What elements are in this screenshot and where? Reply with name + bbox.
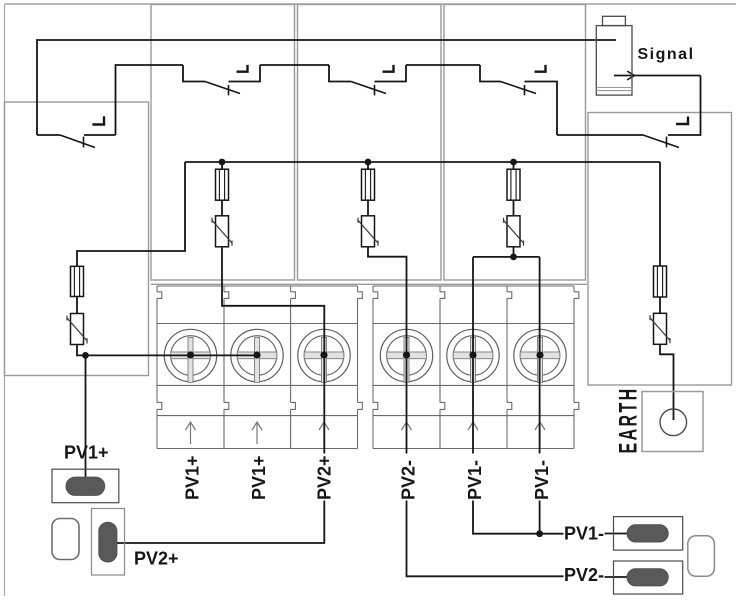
switch S1 left lead — [37, 134, 60, 136]
wire F3 to RV3 — [367, 200, 369, 216]
wire: S3 to S4 — [406, 64, 480, 66]
node PV1+ junction — [82, 352, 89, 359]
node terminal T2 — [253, 351, 260, 358]
wire tee crossbar — [473, 256, 540, 258]
switch S3 right lead — [375, 65, 407, 82]
wire RV2 to terminal T3 — [222, 247, 324, 454]
module box 2 — [298, 5, 442, 281]
wire bus to F2 — [221, 162, 223, 169]
switch S3 contact tick — [374, 85, 376, 95]
wire: bus to PV1+ branch — [77, 162, 185, 266]
wire F2 to RV2 — [221, 200, 223, 216]
terminal T2 clamp — [231, 329, 283, 382]
terminal T1 clamp — [164, 329, 216, 382]
svg-text:PV2-: PV2- — [564, 565, 604, 585]
terminal T5 clamp — [447, 329, 499, 382]
switch S2 right lead — [229, 65, 261, 82]
PV1- connector body — [614, 517, 683, 551]
varistor RV3 (module 2) — [358, 216, 378, 247]
signal connector bottom lines — [596, 88, 632, 91]
wire T5 down to PV1- junction — [473, 501, 540, 534]
terminal T4 clamp — [380, 329, 432, 382]
switch S3 left lead — [329, 65, 351, 82]
terminal block A interlock bumps — [157, 292, 362, 410]
terminal T6 clamp — [514, 329, 566, 382]
terminal block B outline — [373, 286, 574, 449]
wire: S2 to S3 — [260, 64, 329, 66]
svg-text:PV2+: PV2+ — [315, 455, 335, 500]
wire bus to F3 — [367, 162, 369, 169]
switch S4 right lead — [525, 82, 558, 136]
switch S5 contact tick — [666, 137, 668, 148]
fuse F3 (module 2) — [362, 169, 375, 200]
wire F4 to RV4 — [513, 200, 515, 216]
svg-text:PV1-: PV1- — [532, 460, 552, 500]
switch S5 blade — [643, 135, 679, 148]
svg-text:PV1+: PV1+ — [183, 455, 203, 500]
earth terminal screw circle — [660, 409, 687, 436]
switch S2 contact tick — [228, 85, 230, 95]
fuse F4 (module 3) — [507, 169, 520, 200]
svg-text:PV1-: PV1- — [465, 460, 485, 500]
switch S3 thermal mark — [383, 65, 394, 72]
earth terminal box — [642, 392, 703, 452]
PV2- connector body — [614, 561, 683, 594]
node bus-module2 — [365, 159, 372, 166]
svg-text:PV2+: PV2+ — [134, 548, 179, 568]
node PV1- junction — [536, 530, 543, 537]
terminal T1 wire-entry arrow — [186, 422, 196, 444]
rounded spare opening (bottom left) — [52, 519, 79, 560]
terminal T5 wire-entry arrow — [468, 422, 478, 444]
wire: signal return run — [614, 75, 701, 77]
wire RV1 to terminals T1 T2 — [77, 345, 258, 356]
right compartment box — [588, 113, 732, 386]
varistor RV5 (earth branch) — [650, 313, 670, 344]
terminal T6 wire-entry arrow — [535, 422, 545, 444]
node terminal T5 — [469, 351, 476, 358]
wire: S1 to S2 — [116, 65, 184, 135]
PV2+ connector pill — [99, 522, 117, 562]
terminal T2 wire-entry arrow — [252, 422, 262, 444]
switch S4 left lead — [480, 65, 501, 82]
node terminal T6 — [536, 351, 543, 358]
wire tee to terminal T6 — [539, 257, 541, 454]
wire: common bus — [185, 161, 660, 163]
outer frame left border — [4, 4, 6, 596]
svg-text:EARTH: EARTH — [615, 386, 642, 453]
module box 3 — [444, 5, 586, 281]
wire RV3 to terminal T4 — [368, 247, 407, 454]
outer frame top border — [5, 3, 737, 5]
signal connector top tab — [603, 16, 626, 25]
wire: S4 to S5 — [557, 134, 643, 136]
switch S5 right lead — [668, 76, 701, 136]
svg-text:PV1+: PV1+ — [64, 443, 109, 463]
switch S1 blade — [60, 135, 95, 148]
wire: signal loop top run — [37, 40, 616, 135]
switch S4 thermal mark — [535, 65, 546, 72]
node terminal T4 — [403, 351, 410, 358]
switch S4 blade — [501, 82, 537, 94]
terminal block A outline — [157, 286, 358, 449]
node bus-module3 — [510, 159, 517, 166]
node bus-module1 — [219, 159, 226, 166]
PV2- connector pill — [627, 569, 668, 586]
svg-text:PV2-: PV2- — [399, 460, 419, 500]
PV1- connector pill — [627, 525, 668, 542]
terminal block B interlock bumps — [373, 292, 579, 410]
switch S1 contact tick — [83, 137, 85, 148]
switch S2 blade — [205, 82, 240, 94]
wire RV4 to T junction — [513, 247, 515, 257]
PV1+ connector pill — [66, 477, 105, 495]
terminal T3 clamp — [298, 329, 350, 382]
wire T4 to PV2- connector — [407, 501, 564, 577]
wire PV1- label to pill — [605, 533, 649, 535]
fuse F1 (PV1+ branch) — [71, 266, 84, 296]
switch S2 thermal mark — [237, 65, 248, 72]
svg-text:PV1-: PV1- — [564, 523, 604, 543]
signal wire arrowhead — [627, 71, 634, 80]
fuse F5 (earth branch) — [654, 266, 667, 297]
switch S1 thermal mark — [92, 116, 104, 124]
svg-text:PV1+: PV1+ — [249, 455, 269, 500]
node terminal T1 — [187, 351, 194, 358]
wire: bus to earth branch — [659, 162, 661, 266]
module box 1 — [151, 5, 295, 281]
svg-text:Signal: Signal — [638, 46, 695, 63]
wire junction to PV1- label — [540, 533, 564, 535]
signal connector body — [596, 26, 632, 96]
switch S4 contact tick — [524, 85, 526, 95]
switch S1 right lead — [84, 134, 116, 136]
wire T6 down to PV1- junction — [539, 501, 541, 534]
wire T3 to PV2+ connector — [108, 501, 324, 544]
wire F5 to RV5 — [659, 297, 661, 313]
switch S3 blade — [351, 82, 386, 94]
wire PV2- label to pill — [605, 576, 649, 578]
wire tee to terminal T5 — [472, 257, 474, 454]
terminal T4 wire-entry arrow — [402, 422, 412, 444]
switch S2 left lead — [183, 65, 205, 82]
switch S5 thermal mark — [676, 117, 688, 125]
wire: junction down to PV1+ connector — [85, 355, 87, 485]
wire bus to F4 — [513, 162, 515, 169]
wire F1 to RV1 — [76, 297, 78, 314]
varistor RV2 (module 1) — [212, 216, 232, 247]
left compartment box — [5, 102, 149, 376]
rounded spare opening (bottom right) — [688, 536, 715, 577]
varistor RV1 (PV1+ branch) — [67, 314, 87, 345]
mounting rail line — [151, 283, 587, 285]
wire RV5 to earth terminal — [660, 344, 674, 420]
node module3 tee — [510, 254, 517, 261]
varistor RV4 (module 3) — [504, 216, 524, 247]
PV2+ connector body — [92, 509, 125, 576]
node terminal T3 — [320, 351, 327, 358]
terminal T3 wire-entry arrow — [319, 422, 329, 444]
fuse F2 (module 1) — [216, 169, 229, 200]
PV1+ connector body — [52, 469, 119, 503]
